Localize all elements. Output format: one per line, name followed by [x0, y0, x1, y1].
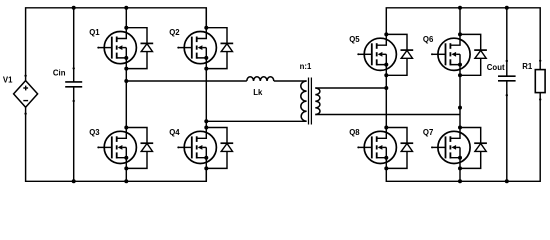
svg-text:Q1: Q1	[89, 28, 100, 37]
junction dot Q2 source	[204, 67, 208, 71]
capacitor Cout	[498, 76, 516, 81]
wire Q1 drain to top rail	[125, 8, 127, 28]
voltage source V1	[14, 81, 38, 108]
junction dot Q1 drain	[124, 26, 128, 30]
junction dot Q1 source	[124, 67, 128, 71]
svg-text:Q6: Q6	[423, 35, 434, 44]
wire Cin bottom	[73, 87, 75, 182]
junction dot Q3 source	[124, 166, 128, 170]
wire bottom rail of output bridge	[386, 93, 540, 182]
wire Cout bottom	[506, 81, 508, 182]
transistor Q8	[357, 128, 396, 169]
junction dot Q3 leg bottom rail	[124, 179, 128, 183]
svg-text:Q2: Q2	[169, 28, 180, 37]
wire Q1 source to Q3 drain	[125, 69, 127, 128]
wire Q2 drain to top rail	[205, 8, 207, 28]
body diode of Q4	[206, 128, 233, 169]
transformer secondary winding	[315, 88, 320, 115]
transformer core	[309, 78, 312, 125]
body diode of Q7	[460, 128, 487, 169]
capacitor Cin	[65, 82, 82, 87]
svg-text:Cout: Cout	[487, 63, 505, 72]
junction dot Q8 drain	[384, 126, 388, 130]
svg-text:Q3: Q3	[89, 128, 100, 137]
terminal dot Cout bottom pin	[506, 94, 508, 96]
body diode of Q3	[126, 128, 153, 169]
wire Cin top	[73, 8, 75, 82]
junction dot Q3 drain	[124, 126, 128, 130]
svg-text:R1: R1	[522, 62, 533, 71]
junction dot Q6 source	[458, 73, 462, 77]
body diode of Q8	[386, 128, 413, 169]
junction dot Q7 leg bottom rail	[458, 179, 462, 183]
body diode of Q2	[206, 28, 233, 69]
svg-text:Q8: Q8	[349, 128, 360, 137]
svg-text:Q5: Q5	[349, 35, 360, 44]
junction dot Cout top rail	[505, 6, 509, 10]
svg-text:V1: V1	[3, 76, 13, 85]
junction dot Cin bottom rail	[72, 179, 76, 183]
terminal dot Cin top pin	[73, 67, 75, 69]
wire bottom rail of input bridge	[26, 107, 207, 181]
terminal dot Cout top pin	[506, 60, 508, 62]
wire Lk to transformer primary	[274, 80, 307, 82]
svg-text:Lk: Lk	[253, 88, 263, 97]
junction dot Cout bottom rail	[505, 179, 509, 183]
body diode of Q6	[460, 34, 487, 75]
junction dot Q7 source	[458, 166, 462, 170]
junction dot Q5 drain	[384, 32, 388, 36]
wire Cout top	[506, 8, 508, 76]
transistor Q1	[97, 28, 136, 69]
transistor Q2	[177, 28, 216, 69]
junction dot Q7 drain	[458, 126, 462, 130]
inductor Lk	[247, 77, 274, 81]
junction dot Q6 drain	[458, 32, 462, 36]
wire Q2 source to Q4 drain	[205, 69, 207, 128]
transistor Q5	[357, 34, 396, 75]
transistor Q3	[97, 128, 136, 169]
wire Q4 source to bottom rail	[205, 168, 207, 181]
junction dot Q6 leg top rail	[458, 6, 462, 10]
wire transformer secondary bottom to node D	[315, 114, 460, 116]
wire transformer primary bottom to phase node B	[206, 120, 306, 122]
svg-text:Cin: Cin	[53, 69, 66, 78]
transistor Q4	[177, 128, 216, 169]
junction dot Cin top rail	[72, 6, 76, 10]
junction dot node C	[384, 86, 388, 90]
junction dot Q4 source	[204, 166, 208, 170]
wire Q6 source to Q7 drain	[459, 75, 461, 127]
transistor Q7	[431, 128, 470, 169]
svg-text:Q4: Q4	[169, 128, 180, 137]
terminal dot V1 top pin	[24, 75, 26, 77]
svg-text:n:1: n:1	[300, 62, 312, 71]
wire Q7 source to bottom rail	[459, 168, 461, 181]
terminal dot R1 top pin	[539, 60, 541, 62]
wire transformer secondary top to node C	[315, 87, 386, 89]
transformer primary winding	[301, 81, 307, 121]
junction dot Q5 source	[384, 73, 388, 77]
junction dot node D	[458, 106, 462, 110]
junction dot Q1 leg top rail	[124, 6, 128, 10]
svg-text:Q7: Q7	[423, 128, 433, 137]
wire Q5 source to Q8 drain	[385, 75, 387, 127]
junction dot Q2 drain	[204, 26, 208, 30]
wire phase node A to Lk	[126, 80, 247, 82]
junction dot Q8 source	[384, 166, 388, 170]
terminal dot V1 bottom pin	[24, 113, 26, 115]
wire Q6 drain to top rail	[459, 8, 461, 35]
body diode of Q1	[126, 28, 153, 69]
terminal dot R1 bottom pin	[539, 98, 541, 100]
junction dot phase node B	[204, 119, 208, 123]
transistor Q6	[431, 34, 470, 75]
junction dot Q4 drain	[204, 126, 208, 130]
wire Q3 source to bottom rail	[125, 168, 127, 181]
terminal dot Cin bottom pin	[73, 100, 75, 102]
body diode of Q5	[386, 34, 413, 75]
resistor R1	[535, 70, 545, 93]
junction dot phase node A	[124, 79, 128, 83]
wire top rail of output bridge	[386, 8, 540, 70]
wire top rail of input bridge	[26, 8, 207, 81]
